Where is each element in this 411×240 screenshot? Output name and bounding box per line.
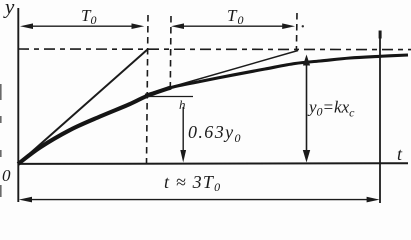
svg-text:t ≈ 3T0: t ≈ 3T0	[164, 172, 221, 194]
x-axis (t axis)	[18, 162, 408, 165]
svg-text:h: h	[179, 97, 186, 112]
y-axis	[17, 8, 19, 202]
0.63y0 level line	[146, 96, 193, 98]
tangent line at curve point (second T0 construction)	[145, 51, 298, 95]
response curve y(t)	[18, 88, 171, 165]
tangent line at origin	[19, 49, 149, 164]
0.63y0 arrow (down to t axis)	[180, 107, 186, 163]
svg-text:0: 0	[2, 166, 11, 185]
dimension arrow T0 (first span)	[20, 23, 144, 29]
scan artifact marks on left edge	[0, 84, 2, 100]
thick tip atop right boundary line	[379, 31, 382, 39]
dimension arrow T0 (second span)	[171, 23, 295, 29]
right boundary line at t=3T0	[379, 33, 381, 203]
response curve y(t) continued	[148, 55, 408, 96]
dashed vertical (start of 2nd T0 span)	[169, 16, 172, 88]
dashed vertical at t=T0	[147, 15, 149, 164]
svg-text:T0: T0	[227, 6, 244, 27]
bottom dimension arrow t = 3T0	[19, 197, 380, 203]
svg-text:0.63y0: 0.63y0	[188, 122, 242, 145]
stray dot right of second T0 arrow	[302, 25, 304, 27]
dashed vertical at tangent/asymptote meet (t=2T0)	[295, 13, 298, 51]
asymptote dash-dot line y0 level	[18, 48, 411, 51]
svg-text:y: y	[3, 0, 15, 19]
y0 = kxc dimension arrow	[303, 55, 310, 163]
svg-text:T0: T0	[81, 6, 96, 27]
svg-text:y0=kxc: y0=kxc	[307, 98, 355, 120]
svg-text:t: t	[397, 144, 403, 164]
